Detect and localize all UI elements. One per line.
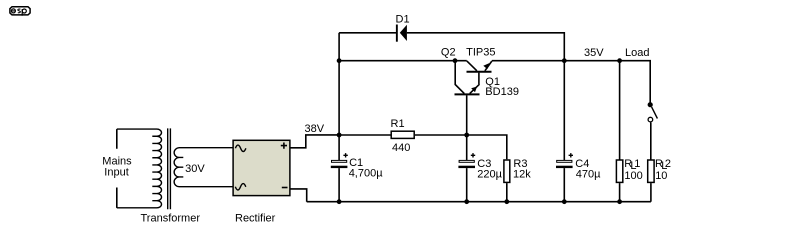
diode D1 triangle <box>400 25 407 41</box>
rectifier AC symbol bottom <box>235 184 246 190</box>
svg-text:BD139: BD139 <box>485 86 519 98</box>
svg-text:35V: 35V <box>584 47 604 59</box>
resistor RL1 body <box>616 160 622 182</box>
transformer T1 primary winding <box>117 129 162 208</box>
rectifier AC symbol top <box>235 145 246 151</box>
svg-text:D1: D1 <box>396 14 410 26</box>
wire rectifier + output to 38V node <box>290 135 339 148</box>
wire mains input loop <box>116 129 118 208</box>
svg-text:10: 10 <box>655 170 667 182</box>
svg-text:4,700µ: 4,700µ <box>349 168 384 180</box>
transistor Q2 emitter with arrow <box>485 61 492 71</box>
resistor R3 lower lead <box>506 183 508 202</box>
transistor Q2 collector diagonal <box>467 61 477 71</box>
junction dot base node at C3 <box>464 133 469 138</box>
svg-text:Load: Load <box>625 47 649 59</box>
svg-text:Input: Input <box>104 167 128 179</box>
wire rectifier - output to bottom rail <box>290 189 307 202</box>
junction dot rail at C4 <box>562 199 567 204</box>
svg-text:1: 1 <box>634 158 640 170</box>
svg-text:470µ: 470µ <box>576 168 601 180</box>
rectifier plus terminal mark <box>281 143 287 149</box>
wire RL1 branch vertical <box>619 61 621 160</box>
transistor Q2 base lead <box>478 73 480 85</box>
capacitor C3 negative plate <box>458 166 475 168</box>
transistor Q2 base bar <box>467 71 492 73</box>
resistor RL2 lower lead <box>650 183 652 202</box>
transistor Q1 base bar <box>455 93 480 95</box>
junction dot 38V node <box>337 133 342 138</box>
junction dot 35V at RL1 <box>617 58 622 63</box>
junction dot 35V at C4 <box>562 58 567 63</box>
wire 38V row (node to R1) <box>339 134 390 136</box>
svg-text:Q2: Q2 <box>441 47 456 59</box>
svg-text:Rectifier: Rectifier <box>235 213 276 225</box>
wire 38V vertical (top rail to C1) <box>338 33 340 161</box>
capacitor C3 plus mark <box>471 153 475 157</box>
wire emitter to 35V rail and down to switch <box>492 61 650 103</box>
svg-text:100: 100 <box>624 170 642 182</box>
capacitor C3 positive plate <box>459 160 474 162</box>
resistor RL2 body <box>648 160 654 182</box>
capacitor C1 positive plate <box>332 160 347 162</box>
capacitor C4 negative plate <box>556 166 573 168</box>
rectifier minus terminal mark <box>282 187 288 189</box>
svg-text:TIP35: TIP35 <box>466 47 495 59</box>
svg-text:R1: R1 <box>391 118 405 130</box>
svg-text:440: 440 <box>392 142 410 154</box>
resistor RL1 lower lead <box>619 183 621 202</box>
transformer core <box>168 128 171 209</box>
transistor Q1 base lead down to node <box>466 95 468 135</box>
capacitor C1 lower lead <box>338 168 340 202</box>
svg-text:Transformer: Transformer <box>141 213 201 225</box>
wire R1 to base node and R3 top <box>415 135 507 159</box>
transistor Q1 emitter with arrow <box>470 84 480 93</box>
rectifier BR1 body <box>233 140 290 195</box>
bottom 0V rail <box>307 201 651 203</box>
svg-text:220µ: 220µ <box>477 168 502 180</box>
wire 35V vertical to C4 <box>563 61 565 161</box>
switch S1 pole contact <box>648 102 653 107</box>
wire collector rail y60 <box>339 60 467 62</box>
capacitor C1 plus mark <box>343 153 347 157</box>
svg-text:2: 2 <box>665 158 671 170</box>
transistor Q1 collector vertical and diagonal <box>455 61 464 94</box>
switch S1 throw contact <box>648 117 653 122</box>
transformer T1 secondary winding and leads to rectifier <box>174 148 233 187</box>
resistor R3 body <box>504 160 510 182</box>
junction dot Q1 Q2 collectors <box>453 58 458 63</box>
svg-text:30V: 30V <box>185 163 205 175</box>
capacitor C3 lower lead <box>466 168 468 202</box>
junction dot rail at C1 <box>337 199 342 204</box>
wire switch to RL2 <box>650 122 652 159</box>
switch S1 lever <box>652 107 658 119</box>
junction dot rail at C3 <box>464 199 469 204</box>
capacitor C4 positive plate <box>557 160 572 162</box>
svg-text:38V: 38V <box>305 123 325 135</box>
capacitor C4 plus mark <box>569 153 573 157</box>
top rail with D1 <box>339 33 564 61</box>
wire C3 node lead <box>466 135 468 160</box>
diode D1 cathode bar <box>396 25 398 42</box>
esp logo <box>10 7 30 16</box>
junction dot 38V/collector rail <box>337 58 342 63</box>
svg-text:12k: 12k <box>513 168 531 180</box>
junction dot rail at RL1 <box>617 199 622 204</box>
resistor R1 body <box>391 131 414 138</box>
capacitor C1 negative plate <box>331 166 348 168</box>
capacitor C4 lower lead <box>563 168 565 202</box>
junction dot rail at R3 <box>504 199 509 204</box>
